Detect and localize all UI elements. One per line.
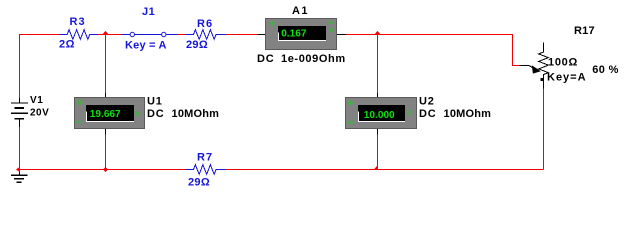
svg-text:U1: U1 xyxy=(147,95,163,107)
U2 display reading 10.000 xyxy=(364,110,395,121)
R17 key label Key=A xyxy=(547,72,587,84)
potentiometer R17 xyxy=(520,43,549,89)
label R7 xyxy=(197,152,213,164)
svg-text:DC: DC xyxy=(257,53,275,65)
U2 value 10MOhm xyxy=(444,108,492,120)
svg-text:100Ω: 100Ω xyxy=(548,57,578,69)
switch J1 xyxy=(122,32,178,36)
A1 display reading 0.167 xyxy=(281,29,307,40)
U1 value 10MOhm xyxy=(172,108,220,120)
wire R7 to R17 bottom xyxy=(226,169,544,171)
svg-text:DC: DC xyxy=(147,108,165,120)
U1 mode DC xyxy=(147,108,165,120)
resistor R6 xyxy=(186,30,225,40)
U1 terminal V xyxy=(135,109,141,118)
svg-text:60 %: 60 % xyxy=(592,64,619,76)
svg-text:R7: R7 xyxy=(197,152,213,164)
wire J1 to R6 xyxy=(178,34,186,36)
wire R3 to J1 xyxy=(98,34,123,36)
svg-text:V: V xyxy=(135,109,141,118)
svg-text:29Ω: 29Ω xyxy=(188,176,210,188)
wire A1 to node B corner xyxy=(337,34,346,36)
wire V1 negative down to ground node xyxy=(19,127,21,170)
label V1 xyxy=(30,95,43,106)
svg-text:Key=A: Key=A xyxy=(547,72,587,84)
value 29 Ohm xyxy=(186,39,208,51)
svg-text:A1: A1 xyxy=(292,5,309,17)
battery V1 xyxy=(11,98,28,127)
wire R6 to A1 xyxy=(226,34,258,36)
node A junction xyxy=(102,31,109,35)
bottom junction under U2 xyxy=(374,165,378,169)
resistor R3 xyxy=(60,30,98,40)
value Key = A xyxy=(125,40,167,52)
value 29 Ohm R7 xyxy=(188,176,210,188)
wire top-left from V1 to R3 xyxy=(20,35,60,99)
resistor R7 xyxy=(186,165,226,175)
ground xyxy=(11,170,28,184)
svg-text:R17: R17 xyxy=(574,25,595,37)
node B junction xyxy=(374,31,381,35)
label J1 xyxy=(142,6,155,18)
label U2 xyxy=(419,95,435,107)
svg-text:R6: R6 xyxy=(197,18,213,30)
svg-text:A: A xyxy=(329,25,335,34)
svg-text:10.000: 10.000 xyxy=(364,110,395,121)
R17 setting 60 % xyxy=(592,64,619,76)
voltmeter U1 body xyxy=(75,98,145,129)
svg-text:2Ω: 2Ω xyxy=(59,38,75,50)
wire bottom net ground to R7 xyxy=(20,169,187,171)
svg-text:0.167: 0.167 xyxy=(281,29,307,40)
wire R17 bottom lead down xyxy=(543,89,545,170)
svg-text:Key = A: Key = A xyxy=(125,40,167,52)
wire U1 down to bottom net xyxy=(105,129,107,135)
label U1 xyxy=(147,95,163,107)
A1 terminal A xyxy=(329,25,335,34)
label A1 xyxy=(292,5,309,17)
svg-text:1e-009Ohm: 1e-009Ohm xyxy=(281,53,346,65)
A1 mode DC xyxy=(257,53,275,65)
U2 terminal V xyxy=(406,109,412,118)
svg-text:R3: R3 xyxy=(70,16,86,28)
ground junction xyxy=(16,167,20,173)
svg-text:DC: DC xyxy=(419,108,437,120)
svg-text:J1: J1 xyxy=(142,6,155,18)
U2 mode DC xyxy=(419,108,437,120)
wire corner down to R17 wiper xyxy=(513,35,520,66)
value 100 Ohm xyxy=(548,57,578,69)
ammeter A1 body xyxy=(266,19,337,50)
bottom junction under U1 xyxy=(103,167,108,172)
voltmeter U2 body xyxy=(346,98,417,129)
svg-text:29Ω: 29Ω xyxy=(186,39,208,51)
svg-text:10MOhm: 10MOhm xyxy=(444,108,492,120)
svg-text:U2: U2 xyxy=(419,95,435,107)
A1 value 1e-009Ohm xyxy=(281,53,346,65)
label R6 xyxy=(197,18,213,30)
label R3 xyxy=(70,16,86,28)
value 20 V xyxy=(30,108,49,119)
wire node B down to U2 xyxy=(377,35,379,94)
svg-text:19.667: 19.667 xyxy=(90,109,121,120)
label R17 xyxy=(574,25,595,37)
value 2 Ohm xyxy=(59,38,75,50)
wire U2 down to bottom net xyxy=(377,129,379,135)
svg-text:10MOhm: 10MOhm xyxy=(172,108,220,120)
U1 display reading 19.667 xyxy=(90,109,121,120)
svg-text:V1: V1 xyxy=(30,95,43,106)
svg-text:20V: 20V xyxy=(30,108,49,119)
wire node A down to U1 xyxy=(105,35,107,94)
svg-text:V: V xyxy=(406,109,412,118)
